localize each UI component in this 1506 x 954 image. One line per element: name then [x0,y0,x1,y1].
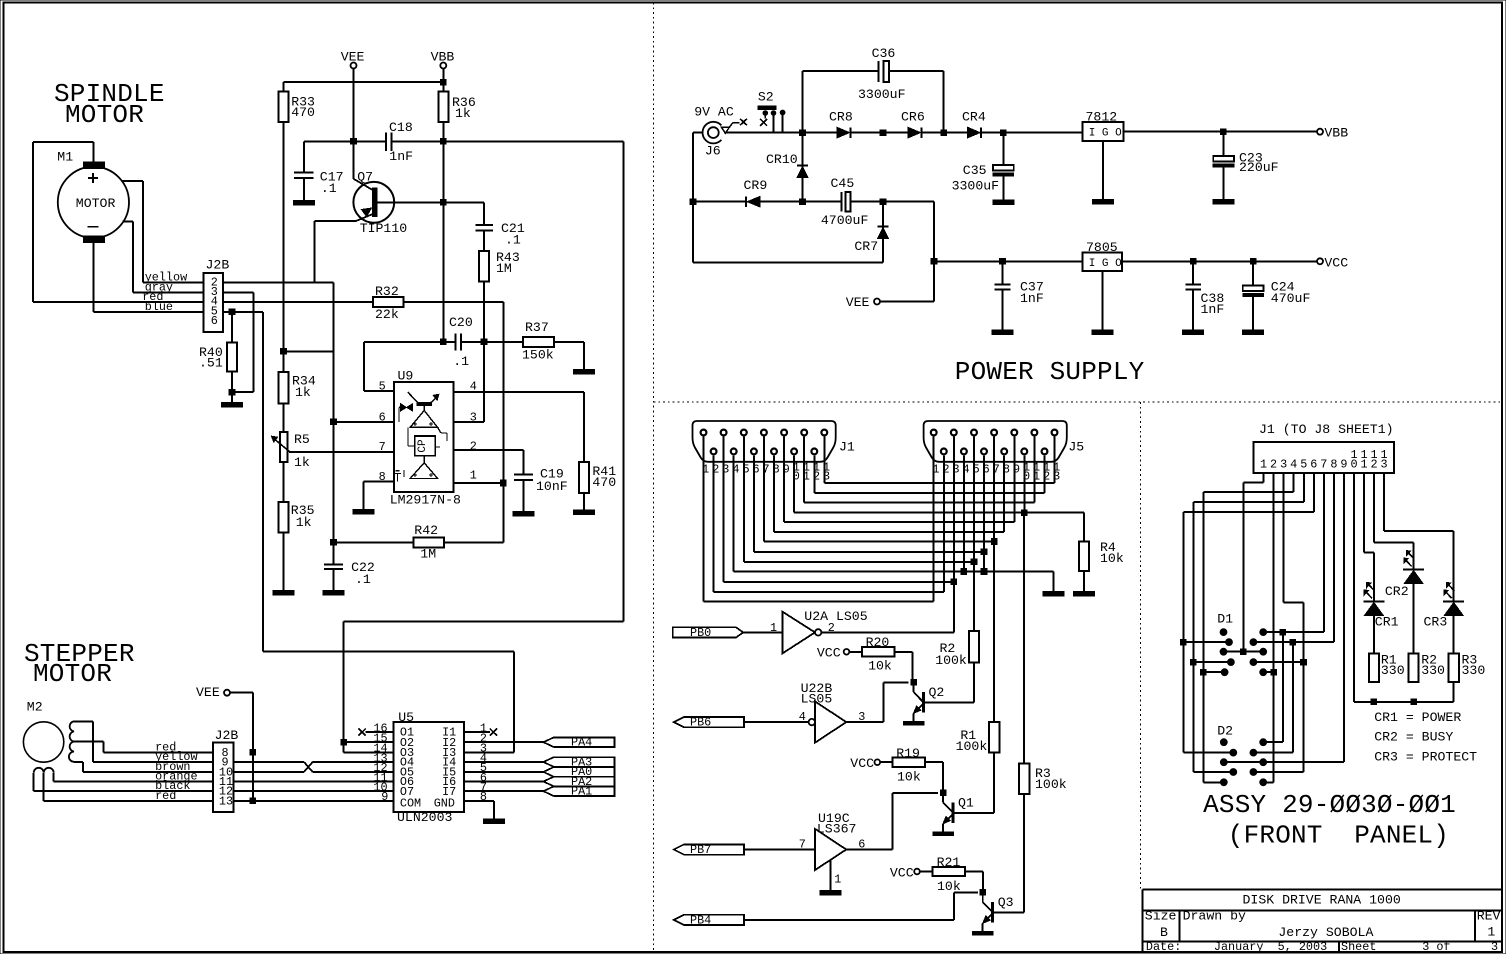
svg-text:.1: .1 [321,181,337,196]
svg-text:.51: .51 [199,356,223,371]
wire CR9 row left [693,201,746,203]
junction D1 center [1241,649,1247,655]
resistor R3 front panel [1449,652,1486,681]
title POWER SUPPLY [955,357,1145,387]
svg-text:0: 0 [1350,457,1357,471]
svg-text:C20: C20 [449,315,473,330]
wire R43-C20 column [483,302,485,422]
wire D1 row 642 left [1183,641,1229,643]
svg-text:1nF: 1nF [1201,302,1225,317]
junction J5.10 tap [1022,510,1028,516]
label blue [145,300,173,314]
legend CR3 [1374,750,1477,765]
svg-text:330: 330 [1381,663,1405,678]
wire PB0 to U2A [743,631,782,633]
display D2 pads [1220,739,1266,786]
diode CR7 [854,202,888,263]
junction VCC rail left [931,259,937,265]
svg-text:4700uF: 4700uF [821,213,868,228]
svg-text:PA4: PA4 [571,736,592,750]
wire U22B out to Q2 [846,682,908,722]
wire winding1 top to yellow [74,721,213,762]
net flag PA0 [543,765,614,779]
regulator 7805 [1083,240,1123,271]
wire R34-R5 [283,403,285,432]
svg-text:J2B: J2B [215,728,239,743]
resistor R20 [849,635,894,673]
svg-text:R19: R19 [896,746,920,761]
U9 pin 7 number [379,440,386,454]
wire crossover [304,762,313,772]
U9 internal op-amp 1 [410,406,438,428]
svg-text:7812: 7812 [1086,109,1118,124]
ground 7805 [1092,271,1113,335]
resistor R32 [373,284,404,322]
wire J5.6 column [983,552,985,572]
wire crossover to U5 12 [313,771,394,773]
wire C20 row right [461,341,523,343]
wire Q7 collector row [377,201,484,203]
resistor R34 [279,372,316,403]
wire winding2 right to orange [54,773,213,782]
junction FP pin6-D1 [1181,639,1187,645]
svg-text:Q7: Q7 [357,169,373,184]
svg-text:B: B [1160,925,1168,940]
wire D1 row 672 left [1203,671,1224,673]
svg-text:VBB: VBB [1324,126,1348,141]
svg-text:470uF: 470uF [1271,291,1311,306]
net flag PB4 [674,913,744,927]
svg-text:VCC: VCC [850,756,874,771]
svg-text:1k: 1k [294,455,310,470]
section divider horizontal dotted [654,401,1503,403]
svg-text:5: 5 [379,380,386,394]
svg-text:R20: R20 [866,635,890,650]
ground R4 [1073,571,1094,596]
svg-text:3 of: 3 of [1422,940,1450,954]
wire PB7 to U19C [744,849,815,851]
ground R40 [222,392,243,407]
motor M1 label [57,149,73,164]
wire J1.3 to J5.3 [724,437,954,582]
ground C17 [293,179,314,205]
svg-text:CR7: CR7 [854,239,878,254]
svg-text:C35: C35 [963,163,987,178]
junction R42-C22 [331,540,337,546]
U5 pin 1 no connect [464,721,497,735]
wire CR4 to 7812 [982,132,1082,134]
svg-text:VEE: VEE [196,685,220,700]
svg-text:1nF: 1nF [1020,291,1044,306]
junction FP pin8-D1 [1290,639,1296,645]
U9 internal op-amp 2 [410,463,438,479]
capacitor C18 [386,120,413,164]
title STEPPER MOTOR [24,639,135,689]
title SPINDLE MOTOR [54,79,165,130]
wire J5.10 column to R3 [1023,513,1025,764]
svg-text:C36: C36 [872,46,896,61]
svg-text:CR3 = PROTECT: CR3 = PROTECT [1374,750,1477,765]
U19C enable pin 1 [820,860,841,895]
junction R40 top [229,309,235,315]
motor M2 label [27,700,43,715]
junction R40 bottom [229,389,235,395]
junction CR10 top [800,130,806,136]
svg-text:CR9: CR9 [744,178,768,193]
resistor R36 [438,92,476,123]
svg-text:2: 2 [1270,457,1277,471]
svg-text:CP: CP [417,439,429,453]
svg-text:(FRONT PANEL): (FRONT PANEL) [1228,820,1449,850]
svg-text:1nF: 1nF [389,149,413,164]
title text [1243,893,1401,908]
capacitor C20 [449,315,473,369]
svg-text:COM: COM [400,797,421,811]
U9 pin 5 [364,380,394,394]
wire C20 row left [364,341,456,343]
terminal VCC [1317,255,1348,270]
svg-text:VCC: VCC [817,646,841,661]
wire J5.7 column to R1 [993,542,995,722]
wire J1.9 to J5.9 [784,437,1014,523]
svg-text:R21: R21 [937,855,961,870]
svg-text:D1: D1 [1217,611,1233,626]
svg-text:CR1: CR1 [1375,614,1399,629]
U9 internal diode pair [399,404,412,422]
wire M1 minus to blue row [93,243,203,312]
wire winding1 bottom to brown [74,762,213,772]
motor M2 [23,722,63,762]
svg-text:8: 8 [379,470,386,484]
svg-text:8: 8 [1330,457,1337,471]
svg-text:9: 9 [1340,457,1347,471]
label J1 front panel [1259,422,1394,437]
svg-text:.1: .1 [505,233,521,248]
U9 internal ground [394,470,404,482]
svg-text:S2: S2 [758,90,774,105]
svg-text:Jerzy SOBOLA: Jerzy SOBOLA [1278,925,1373,940]
svg-text:1: 1 [1260,457,1267,471]
U9 internal wires [408,427,447,462]
svg-text:TIP110: TIP110 [360,221,408,236]
wire VEE stub [880,301,934,303]
svg-text:U5: U5 [398,710,414,725]
U9 pin 2 [454,439,524,453]
svg-text:M2: M2 [27,700,43,715]
LED CR2 [1385,551,1424,600]
wire winding2 left to black [34,773,213,791]
svg-text:8: 8 [480,790,487,804]
svg-text:.1: .1 [453,354,469,369]
wire FP pin3 [1257,473,1304,772]
svg-text:J1 (TO J8 SHEET1): J1 (TO J8 SHEET1) [1259,422,1394,437]
wire FP pin8 [1253,473,1334,752]
wire D2 row 742 right [1263,741,1283,743]
ground C22 [323,570,344,595]
resistor R33 [279,82,316,122]
junction FP pin4-D1 [1201,669,1207,675]
svg-text:POWER SUPPLY: POWER SUPPLY [955,357,1145,387]
wire R20 to Q2 base [894,652,912,683]
wire CR9 to C45 [760,201,841,203]
junction FP pin7-D1 [1280,629,1286,635]
svg-text:470: 470 [592,475,616,490]
wire FP pin5 [1193,473,1303,772]
diode CR9 [744,178,768,207]
inverter U2A [770,609,868,653]
svg-text:9: 9 [381,790,388,804]
plug tip no connect [722,119,748,134]
wire M1 plus to red row [33,142,203,302]
title block frame [1143,890,1501,953]
svg-text:U2A LS05: U2A LS05 [804,609,867,624]
svg-text:3: 3 [1381,457,1388,471]
svg-text:1: 1 [1360,457,1367,471]
junction FP pin3-D1 [1301,659,1307,665]
resistor R2 front panel [1409,652,1446,681]
wire yellow jog down [333,282,335,422]
LED CR3 [1424,583,1465,630]
svg-text:blue: blue [145,300,173,314]
diode CR10 [766,133,808,202]
svg-text:LM2917N-8: LM2917N-8 [390,493,461,508]
motor M1 bottom brush [84,236,105,243]
wire C18 row right [392,140,624,142]
svg-text:3: 3 [1491,940,1498,954]
section divider vertical dotted [653,3,655,953]
ground U9 pin8 [353,482,374,514]
junction CR7 top [880,199,886,205]
U5 pin 6 to PA2 [464,771,544,785]
svg-text:4: 4 [1290,457,1297,471]
junction J5.7 tap [991,539,997,545]
wire M1 right upper to yellow row [123,181,204,283]
svg-text:3300uF: 3300uF [858,87,905,102]
wire D2 row 782 right [1263,781,1273,783]
svg-text:C45: C45 [831,176,855,191]
svg-text:6: 6 [379,410,386,424]
label ASSY [1203,790,1456,820]
svg-text:CR1 = POWER: CR1 = POWER [1374,710,1461,725]
junction C18-VBB [441,139,447,145]
svg-text:PB4: PB4 [690,913,711,927]
wire crossover to U5 13 [313,761,394,763]
wire R33 bottom column [283,122,285,372]
wire J2B 11 to U5 11 [234,781,394,783]
terminal VBB power [1317,126,1348,141]
U5 pin 8 GND [464,790,494,819]
resistor R41 [579,392,616,493]
wire D1 row 662 left [1193,661,1231,663]
wire J2B2 pin2 yellow net [223,281,333,283]
junction C36 right [941,130,947,136]
label yellow [145,271,187,285]
junction C23 top [1221,129,1227,135]
wire AC main [724,132,837,134]
capacitor C37 [995,261,1044,306]
wire U19C out to Q1 [846,793,938,850]
svg-text:CR4: CR4 [962,109,986,124]
junction yellow-R34 link [281,349,287,355]
label VCC R21 [890,865,920,880]
wire VCC rail 2 [1122,260,1317,262]
wire Q2 collector to R2 [973,662,975,702]
wire R36 bottom [442,122,444,342]
svg-text:R5: R5 [294,432,310,447]
net flag PA3 [543,755,614,769]
terminal VEE [341,49,365,68]
svg-text:CR2 = BUSY: CR2 = BUSY [1374,730,1453,745]
svg-text:VCC: VCC [1324,255,1348,270]
svg-text:220uF: 220uF [1239,160,1279,175]
wire C18 row left [304,140,386,142]
svg-text:5: 5 [1300,457,1307,471]
resistor R3 [1019,763,1067,794]
svg-text:J5: J5 [1068,439,1084,454]
wire PB4 to Q3 [744,892,978,920]
motor M1 top brush [84,162,105,169]
wire CR3 to R3fp [1453,616,1455,654]
title sheet [1341,940,1498,954]
wire winding2 mid to red2 [44,773,213,801]
ground R35 [273,532,294,595]
label black [155,779,190,793]
buffer U19C [799,811,866,870]
svg-text:CR6: CR6 [901,109,925,124]
capacitor C22 [324,560,375,587]
svg-text:Q1: Q1 [958,795,974,810]
ground C35 [993,176,1014,205]
label orange [155,770,197,784]
wire J2B 13 to U5 9 [234,800,394,802]
junction FP pin2-D1 [1271,669,1277,675]
svg-text:1: 1 [1487,925,1495,940]
connector J2B stepper [213,728,238,812]
wire D1 row 672 right [1263,671,1273,673]
svg-text:10k: 10k [868,659,892,674]
wire link row [284,350,334,352]
U5 pin 3 [464,742,514,756]
wire J1.5 to J5.5 [744,437,974,562]
junction ground tap J5.6b [981,569,987,575]
wire C18 net right column [623,141,625,621]
wire J6 left [693,133,703,202]
svg-text:D2: D2 [1217,723,1233,738]
svg-text:CR8: CR8 [829,109,853,124]
wire R32 right [404,301,504,303]
svg-text:Q3: Q3 [998,895,1014,910]
svg-text:MOTOR: MOTOR [65,100,144,130]
svg-text:M1: M1 [57,149,73,164]
wire CR1 to R1fp [1373,616,1375,654]
svg-text:22k: 22k [375,307,399,322]
junction J5.5 tap [971,559,977,565]
U9 pin 6 [334,410,394,424]
svg-text:R37: R37 [525,320,549,335]
svg-text:PB6: PB6 [690,716,711,730]
wire J5.3 column to U2A [953,582,955,633]
wire R40 bottom to gray column [232,292,254,392]
transistor Q3 [973,890,1025,935]
U5 pin 15 [344,732,394,746]
label red [142,290,163,304]
title drawn by [1183,909,1374,940]
wire VEE down to Q7 [353,69,355,179]
wire Q1 collector to R1 [993,753,995,813]
connector J5 pin numbers [932,461,1060,484]
svg-text:100k: 100k [935,653,967,668]
diode CR4 [962,109,986,137]
U9 pin 3 [454,410,484,424]
wire J1.2 to J5.2 [714,455,944,592]
svg-text:J1: J1 [839,439,855,454]
legend CR1 [1374,710,1461,725]
inductor M2 winding 2 [34,768,54,773]
label red 2 [155,789,176,803]
U9 pin 4 [454,380,584,394]
svg-text:470: 470 [291,105,315,120]
resistor R1 [956,722,1000,754]
transistor Q1 [933,790,994,835]
wire blue net long column [262,312,264,652]
svg-text:Size: Size [1145,909,1177,924]
connector J5 pins [931,430,1058,455]
capacitor C35 [952,133,1014,194]
title rev [1477,909,1501,940]
junction FP pin5-D1 [1191,659,1197,665]
wire C18 net to stepper [344,622,624,753]
connector J1 pin numbers [702,461,830,484]
junction C18-VEE [351,139,357,145]
connector J1 front panel pin numbers [1260,448,1388,471]
wire D1 row 662 right [1253,661,1303,663]
ground C24 [1243,297,1264,335]
op-amp U9 box [390,368,461,507]
svg-text:7: 7 [799,837,806,851]
wire J2B2 pin3 gray net [223,291,253,293]
svg-text:R42: R42 [414,523,438,538]
transistor Q7 [353,169,407,236]
wire CR8-CR6 [852,132,909,134]
wire U2A out [821,631,954,633]
svg-text:7: 7 [1320,457,1327,471]
svg-text:3: 3 [470,410,477,424]
label gray [145,281,173,295]
junction rail R2 [1411,699,1417,705]
svg-text:1k: 1k [455,106,471,121]
wire J2B 12 to U5 10 [234,790,394,792]
section divider vertical dotted 2 [1140,402,1142,890]
wire R21 to Q3 base [965,872,983,893]
svg-text:J2B: J2B [206,257,230,272]
svg-text:CR10: CR10 [766,152,798,167]
resistor R43 [479,232,520,302]
wire J1.11 to J5.11 [804,437,1034,503]
svg-text:1: 1 [470,469,477,483]
junction C45 top [880,130,886,136]
U5 pin 5 to PA0 [464,761,544,775]
junction C35 top [1001,130,1007,136]
svg-text:LS367: LS367 [817,821,857,836]
svg-text:PB0: PB0 [690,626,711,640]
capacitor C24 [1243,261,1311,306]
label VCC R19 [850,756,880,771]
svg-text:1M: 1M [496,261,512,276]
svg-text:PB7: PB7 [690,843,711,857]
wire R37 right [554,342,584,369]
wire J1.8 to J5.8 [774,455,1004,531]
svg-text:2: 2 [470,439,477,453]
